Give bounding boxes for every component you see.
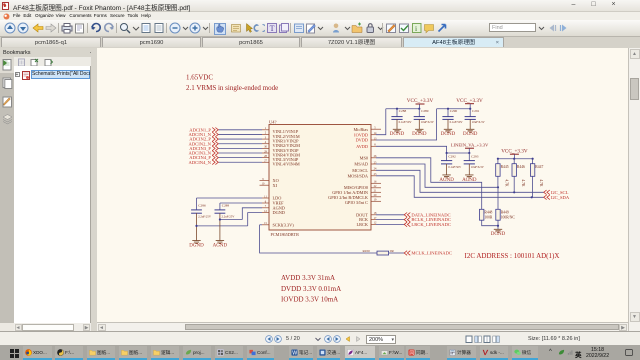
junction R445 top — [497, 158, 499, 160]
wire R445 bottom — [497, 176, 499, 187]
wire MOSI/SDA net I2C_SDA — [376, 176, 544, 198]
bookmark toolbar — [17, 58, 26, 67]
wire VCC rail 1 — [386, 108, 420, 110]
wire SCKI stub ext — [260, 224, 262, 226]
svg-text:U4?: U4? — [269, 120, 277, 125]
pin stub 20 — [371, 194, 381, 197]
menu bar — [0, 12, 640, 20]
wire R449 bottom to ground — [497, 220, 499, 229]
node ADCIN2_N port — [189, 141, 219, 146]
svg-text:MS0: MS0 — [360, 155, 368, 160]
svg-text:DVDD: DVDD — [356, 138, 368, 143]
wire IOVDD to VCC rail 1 — [376, 109, 386, 135]
svg-text:T: T — [270, 24, 275, 33]
capacitor C291 (10uF/6.3V) — [465, 109, 486, 130]
svg-text:DGND: DGND — [491, 232, 506, 237]
wire LINEIN stem — [468, 148, 470, 153]
svg-text:IOVDD: IOVDD — [354, 132, 368, 137]
svg-text:MS/AD: MS/AD — [354, 162, 368, 167]
wire VCC rail 2 — [437, 108, 471, 110]
node I2C_SCL port — [544, 190, 569, 195]
svg-text:2.2uF/25V: 2.2uF/25V — [222, 215, 236, 219]
pin stub 25 — [371, 161, 377, 164]
svg-text:VCC_+3.3V: VCC_+3.3V — [407, 98, 434, 104]
wire net ADCIN4_P — [219, 157, 263, 159]
pin stub 19 — [371, 199, 381, 202]
svg-text:10uF/6.3V: 10uF/6.3V — [472, 120, 486, 124]
svg-text:I2C ADDRESS : 100101 AD(1)X: I2C ADDRESS : 100101 AD(1)X — [465, 252, 560, 260]
pin 30 VINR3/VIN3P — [262, 146, 299, 153]
svg-text:4.7K: 4.7K — [505, 179, 509, 187]
svg-text:4.7K: 4.7K — [521, 179, 525, 187]
svg-text:C293: C293 — [471, 154, 479, 158]
svg-text:I2C_SDA: I2C_SDA — [551, 195, 570, 200]
svg-text:LINEIN_VA_+3.3V: LINEIN_VA_+3.3V — [451, 142, 489, 147]
svg-text:R449: R449 — [501, 211, 509, 215]
svg-text:MCLK_LINEINADC: MCLK_LINEINADC — [411, 251, 452, 256]
svg-text:AGND: AGND — [213, 244, 228, 249]
resistor R448 — [480, 209, 484, 220]
wire LDO to C286 — [197, 197, 263, 199]
wire MS/AD to R445/R449 junction — [376, 164, 498, 187]
wire R447 bottom — [532, 176, 534, 197]
panel scrollbar — [15, 324, 22, 331]
pin 27 VINL4/VIN4M — [262, 160, 300, 167]
svg-text:LRCK_LINEINADC: LRCK_LINEINADC — [411, 222, 451, 227]
junction C288 bottom / AGND net — [219, 218, 221, 220]
pin stub 13 — [371, 137, 377, 140]
wire DVDD to VCC rail 2 — [376, 109, 437, 140]
capacitor C289 (10uF/6.3V) — [414, 109, 435, 130]
svg-text:DGND: DGND — [463, 132, 478, 137]
node ADCIN4_P port — [189, 155, 218, 160]
wire net ADCIN1_P — [219, 129, 263, 131]
pin 9 XO — [260, 178, 279, 183]
toolbar — [0, 20, 640, 37]
svg-text:MC/SCL: MC/SCL — [352, 168, 368, 173]
svg-text:DGND: DGND — [273, 210, 285, 215]
capacitor C292 (0.1uF/50V) — [441, 153, 462, 175]
svg-text:C291: C291 — [472, 109, 480, 113]
ground AGND — [462, 175, 477, 183]
wire VCC3 stem — [513, 154, 515, 158]
svg-text:R450: R450 — [363, 249, 371, 253]
power symbol VCC_+3.3V — [501, 148, 528, 154]
wire net ADCIN3_P — [219, 147, 263, 149]
wire AGND pin vertical — [242, 208, 262, 220]
pin 4 VINR2/VIN2M — [262, 141, 300, 148]
wire net BCLK_LINEINADC — [376, 219, 404, 221]
pin stub 14 — [371, 132, 377, 135]
svg-text:SCKI(3.3V): SCKI(3.3V) — [273, 222, 295, 227]
pin 1 VINL1/VIN1P — [262, 127, 299, 134]
svg-text:C288: C288 — [399, 109, 407, 113]
pin stub 18 — [371, 212, 377, 215]
wire VCC2 stem — [469, 104, 471, 109]
wire R446 bottom — [513, 176, 515, 192]
svg-text:VCC_+3.3V: VCC_+3.3V — [501, 148, 528, 154]
capacitor C288 (2.2uF/25V) — [215, 204, 236, 241]
svg-text:VINL4/VIN4M: VINL4/VIN4M — [273, 162, 300, 167]
wire DGND pin vertical — [248, 213, 262, 226]
pin stub 8 — [371, 144, 376, 147]
node DATA_LINEINADC port — [404, 212, 450, 217]
svg-text:DVDD 3.3V 0.01mA: DVDD 3.3V 0.01mA — [281, 285, 341, 293]
content area with schematic — [97, 48, 628, 322]
junction C289 top — [418, 108, 420, 110]
wire rail to R445 — [497, 159, 499, 164]
wire net ADCIN4_N — [219, 161, 263, 163]
svg-text:R448: R448 — [484, 211, 492, 215]
svg-text:AVDD 3.3V 31mA: AVDD 3.3V 31mA — [281, 274, 335, 282]
resistor R446 — [512, 164, 516, 177]
svg-text:MOSI/SDA: MOSI/SDA — [347, 173, 368, 178]
svg-text:4.7K: 4.7K — [539, 179, 543, 187]
wire net ADCIN3_N — [219, 152, 263, 154]
resistor R447 — [530, 164, 534, 177]
node ADCIN1_P port — [189, 127, 218, 132]
svg-text:DGND: DGND — [189, 244, 204, 249]
svg-text:GPIO 3/Int C: GPIO 3/Int C — [345, 200, 368, 205]
ground DGND — [491, 229, 506, 237]
wire net ADCIN1_N — [219, 133, 263, 135]
svg-text:i: i — [415, 24, 417, 33]
panel nav icons — [0, 57, 14, 73]
svg-text:2.2uF/25V: 2.2uF/25V — [198, 215, 212, 219]
wire VCC rail 3 — [498, 158, 533, 160]
ground DGND — [412, 129, 427, 137]
bookmark tree row — [15, 72, 20, 77]
pin stub 21 — [371, 190, 381, 193]
power symbol LINEIN_VA_+3.3V — [451, 142, 489, 148]
svg-text:1.65VDC: 1.65VDC — [186, 73, 213, 81]
svg-text:PCM1865DBTR: PCM1865DBTR — [271, 232, 300, 237]
svg-text:同: 同 — [409, 350, 414, 356]
wire net ADCIN2_N — [219, 143, 263, 145]
junction R447 top — [532, 158, 534, 160]
wire VCC1 stem — [419, 104, 421, 109]
task bar — [0, 345, 640, 360]
svg-text:0.1uF/50V: 0.1uF/50V — [448, 165, 462, 169]
pin 11 LDO — [262, 195, 281, 200]
junction C286 bottom / DGND net — [195, 225, 197, 227]
pin 12 DGND — [262, 210, 285, 215]
junction SCL R446 — [513, 191, 515, 193]
svg-text:XI: XI — [273, 183, 278, 188]
pin 7 AGND — [262, 205, 285, 210]
resistor R445 — [496, 164, 500, 177]
svg-text:C288: C288 — [222, 204, 230, 208]
svg-text:C289: C289 — [421, 109, 429, 113]
junction SDA R447 — [531, 196, 533, 198]
pin stub 26 — [371, 155, 377, 158]
wire R448 bottom — [482, 220, 498, 226]
status bar controls — [265, 335, 273, 343]
svg-text:MicBias: MicBias — [353, 127, 368, 132]
power symbol VCC_+3.3V — [456, 98, 483, 104]
status bar — [0, 331, 640, 345]
junction R448 R449 bottoms — [497, 225, 499, 227]
title bar — [0, 0, 640, 12]
wire to R449 — [497, 187, 499, 209]
capacitor C286 (2.2uF/25V) — [191, 204, 212, 241]
svg-text:W: W — [292, 350, 297, 355]
pin 6 VREF — [262, 200, 284, 205]
toolbar — [4, 22, 16, 34]
wire net DATA_LINEINADC — [376, 214, 404, 216]
pin 2 VINL2/VIN1M — [262, 132, 300, 139]
capacitor C290 (0.1uF/50V) — [442, 109, 463, 130]
pin stub 24 — [371, 168, 377, 171]
ground DGND — [463, 129, 478, 137]
svg-text:LRCK: LRCK — [357, 222, 369, 227]
pin stub 5 — [371, 127, 381, 130]
svg-text:0.1uF/50V: 0.1uF/50V — [399, 120, 413, 124]
pin stub 12 — [371, 222, 377, 225]
junction R446 top — [513, 158, 515, 160]
junction C291 top — [469, 108, 471, 110]
pin 15 SCKI(3.3V) — [262, 222, 294, 227]
wire LDO drop to C286 — [196, 198, 198, 210]
wire DGND horizontal — [197, 225, 248, 227]
pin stub 16 — [371, 181, 381, 184]
ground AGND — [439, 175, 454, 183]
svg-text:0R: 0R — [390, 249, 395, 253]
wire AVDD to LINEIN_VA rail — [376, 146, 447, 153]
junction MS/AD R445 R449 — [497, 186, 499, 188]
svg-text:10uF/6.3V: 10uF/6.3V — [471, 165, 485, 169]
wire SCKI to R450 — [260, 225, 377, 253]
node ADCIN3_N port — [189, 151, 219, 156]
taskbar — [10, 349, 19, 358]
svg-text:DGND: DGND — [390, 132, 405, 137]
node ADCIN4_N port — [189, 160, 219, 165]
pin 10 XI — [260, 183, 278, 188]
svg-text:10uF/6.3V: 10uF/6.3V — [421, 120, 435, 124]
bookmarks panel — [0, 48, 97, 58]
resistor R450 (0R) — [363, 249, 395, 255]
svg-text:IOVDD 3.3V 10mA: IOVDD 3.3V 10mA — [281, 296, 338, 304]
svg-text:0.1uF/50V: 0.1uF/50V — [450, 120, 464, 124]
wire R450 to MCLK port — [389, 252, 405, 254]
IC U4? PCM1865DBTR body — [269, 120, 371, 238]
svg-text:R446: R446 — [517, 165, 525, 169]
node MCLK_LINEINADC port — [404, 251, 452, 256]
wire LINEIN_VA rail — [447, 152, 470, 154]
wire rail to R447 — [532, 159, 534, 164]
ground DGND — [390, 129, 405, 137]
svg-text:C286: C286 — [198, 204, 206, 208]
wire MC/SCL net I2C_SCL — [376, 170, 544, 192]
svg-text:ADCIN4_N: ADCIN4_N — [189, 160, 212, 165]
ground AGND — [213, 241, 228, 249]
svg-text:C290: C290 — [450, 109, 458, 113]
wire AGND horizontal — [220, 219, 242, 221]
power symbol VCC_+3.3V — [407, 98, 434, 104]
svg-text:2.1 VRMS in single-ended mode: 2.1 VRMS in single-ended mode — [186, 84, 278, 92]
junction C293 top — [468, 152, 470, 154]
svg-text:100R/NC: 100R/NC — [501, 215, 516, 219]
node ADCIN1_N port — [189, 132, 219, 137]
node LRCK_LINEINADC port — [404, 222, 451, 227]
node I2C_SDA port — [544, 195, 570, 200]
svg-text:AVDD: AVDD — [356, 144, 368, 149]
wire MS0 to R448 — [376, 158, 482, 210]
scrollbars — [628, 48, 640, 331]
pin stub 22 — [371, 185, 381, 188]
resistor R449 — [496, 209, 500, 220]
svg-text:DGND: DGND — [412, 132, 427, 137]
svg-text:VCC_+3.3V: VCC_+3.3V — [456, 98, 483, 104]
wire net LRCK_LINEINADC — [376, 223, 404, 225]
wire rail to R446 — [513, 159, 515, 164]
wire VREF to C288 — [220, 202, 262, 204]
pin 28 VINL3/VIN4P — [262, 155, 299, 162]
horizontal scrollbar — [98, 324, 106, 331]
svg-text:100R: 100R — [484, 215, 493, 219]
svg-text:C292: C292 — [448, 154, 456, 158]
junction C292 top — [446, 152, 448, 154]
pin 3 VINR1/VIN2P — [262, 136, 299, 143]
svg-text:R445: R445 — [501, 165, 509, 169]
capacitor C288 (0.1uF/50V) — [391, 109, 412, 130]
pin stub 17 — [371, 217, 377, 220]
junction C290 top — [447, 108, 449, 110]
junction C288a top — [396, 108, 398, 110]
node ADCIN3_P port — [189, 146, 218, 151]
capacitor C293 (10uF/6.3V) — [464, 153, 485, 175]
wire net ADCIN2_P — [219, 138, 263, 140]
node ADCIN2_P port — [189, 137, 218, 142]
ground DGND — [189, 241, 204, 249]
svg-text:R447: R447 — [535, 165, 543, 169]
vertical scrollbar — [630, 49, 640, 59]
wire VREF drop to C288 — [219, 203, 221, 210]
pin stub 23 — [371, 173, 377, 176]
ground DGND — [441, 129, 456, 137]
node BCLK_LINEINADC port — [404, 217, 451, 222]
tab bar — [0, 37, 640, 49]
svg-text:DGND: DGND — [441, 132, 456, 137]
pin 29 VINR4/VIN3M — [262, 150, 300, 157]
